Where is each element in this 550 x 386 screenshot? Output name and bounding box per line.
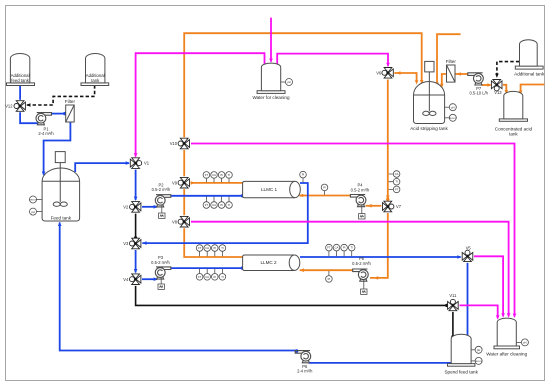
arrow into acid tank from filter — [440, 84, 444, 88]
svg-text:0.5-2 m³/h: 0.5-2 m³/h — [151, 260, 170, 265]
junction dot orange above V7 — [386, 198, 389, 201]
arrow into pump P4 — [367, 204, 371, 208]
svg-text:LLMC 1: LLMC 1 — [261, 187, 278, 192]
svg-text:V13: V13 — [494, 90, 502, 95]
svg-text:Filter: Filter — [65, 99, 76, 104]
arrow magenta into water tank — [269, 59, 273, 63]
svg-text:Feed tank: Feed tank — [51, 216, 72, 221]
valve V4 — [130, 274, 141, 285]
wire V12 to pump P1 — [20, 112, 38, 123]
wire external stub into concentrated acid tank — [521, 85, 545, 92]
svg-text:TI: TI — [221, 246, 224, 250]
wire filter F2 to acid stripping tank — [442, 74, 447, 85]
tank Acid stripping tank with agitator — [414, 61, 445, 123]
valve V13 — [491, 80, 502, 91]
tank Concentrated acid tank — [499, 91, 527, 121]
arrow blue into V3 from right — [142, 241, 146, 245]
instrument PI on LLMC1 blue outlet — [300, 171, 307, 182]
valve V6 — [382, 68, 393, 79]
svg-text:REDOX: REDOX — [449, 118, 457, 120]
svg-text:PI: PI — [220, 173, 223, 177]
wire orange riser V8 to LLMC 2 inlet — [184, 228, 242, 257]
arrow blue into pump P3 — [154, 277, 158, 281]
svg-text:CA: CA — [335, 246, 339, 250]
wire V11 to water-after-cleaning tank — [460, 305, 498, 318]
svg-text:FT: FT — [198, 275, 202, 279]
svg-text:tank: tank — [91, 78, 100, 83]
arrow into pump P5 — [374, 276, 378, 280]
svg-text:tank: tank — [509, 132, 518, 137]
svg-text:PI: PI — [302, 173, 305, 177]
junction dot black at spend tank top — [451, 335, 454, 338]
junction dot black at V11 left — [445, 304, 448, 307]
svg-text:0.5-2 m³/h: 0.5-2 m³/h — [351, 187, 370, 192]
valve V7 — [383, 201, 394, 212]
arrow into concentrated acid tank from stub — [519, 91, 523, 95]
svg-text:TI: TI — [228, 203, 231, 207]
junction dot black at V3 top — [134, 236, 137, 239]
VFD box of P3 — [158, 278, 164, 290]
svg-text:V10: V10 — [170, 141, 178, 146]
svg-text:V11: V11 — [449, 293, 457, 298]
vessel LLMC 1 — [243, 181, 301, 197]
arrow black into V12 — [26, 103, 30, 107]
tank Additional feed tank — [7, 54, 35, 86]
svg-text:REDOX: REDOX — [475, 361, 483, 363]
wire feed tank to V1 — [75, 163, 129, 172]
arrow blue into V5 — [457, 255, 461, 259]
svg-text:pH: pH — [451, 105, 454, 109]
svg-text:V8: V8 — [172, 219, 178, 224]
svg-text:CA: CA — [212, 173, 216, 177]
svg-text:PI: PI — [323, 185, 326, 189]
svg-text:CA: CA — [205, 246, 209, 250]
instrument REDOX on spend feed tank — [471, 357, 482, 364]
junction dot blue LLMC2 inlet — [241, 266, 244, 269]
wire feed tank drain to pump P6 — [60, 223, 297, 351]
svg-text:TI: TI — [395, 180, 398, 184]
vessel LLMC 2 — [243, 255, 300, 271]
arrow into LLMC 1 right — [299, 194, 303, 198]
valve V11 — [448, 299, 459, 310]
wire dashed additional tank to V13 — [497, 62, 519, 75]
wire dashed additional tank to V12 — [27, 86, 95, 105]
junction dot blue LLMC1 inlet — [241, 194, 244, 197]
wire V6 to V7 vertical — [387, 80, 389, 199]
wire pump P7 to valve V13 — [482, 84, 491, 86]
wire LLMC 2 outlet to V5 — [300, 256, 461, 258]
wire LLMC 1 outlet to pump P4 — [299, 195, 350, 197]
svg-text:CA: CA — [395, 172, 399, 176]
VFD box of P5 — [361, 280, 367, 295]
svg-text:V5: V5 — [466, 245, 472, 250]
wire orange riser V9-V8 — [183, 189, 185, 215]
wire V2 to pump P2 — [142, 206, 157, 208]
arrow blue into V2 — [134, 197, 138, 201]
wire pump P2 to LLMC 1 — [171, 195, 243, 197]
wire V7 to pump P4 inlet — [366, 205, 382, 207]
instrument REDOX on feed tank — [30, 196, 43, 203]
pump P6 — [295, 351, 311, 363]
wire external stub into water tank — [270, 18, 272, 62]
junction dot blue P6 inlet — [295, 349, 298, 352]
valve V9 — [178, 177, 189, 188]
wire V4 to V11 — [136, 286, 447, 306]
instrument PI on LLMC1 orange return — [321, 184, 328, 195]
svg-text:CA: CA — [212, 203, 216, 207]
svg-text:FT: FT — [395, 187, 399, 191]
tank Spend feed tank — [448, 334, 475, 366]
svg-text:PI: PI — [343, 246, 346, 250]
wire orange top header to acid stripping tank — [184, 33, 422, 137]
instrument cluster FT CA PI TI above LLMC2 inlet — [196, 245, 225, 257]
svg-text:V6: V6 — [376, 70, 382, 75]
wire filter F2 to pump P7 — [455, 73, 468, 75]
tank Additional tank (top left) — [81, 54, 109, 86]
wire V5 to spend feed tank — [467, 263, 469, 337]
instrument pH on water-for-cleaning tank — [281, 79, 293, 86]
svg-text:0.5-2 m³/h: 0.5-2 m³/h — [352, 261, 371, 266]
wire LLMC 1 outlet back to V3 — [142, 183, 307, 243]
instrument stems and circles — [30, 79, 529, 365]
svg-text:TI: TI — [228, 173, 231, 177]
wire external stub into acid stripping tank — [437, 34, 461, 83]
VFD box of P4 — [359, 205, 365, 219]
arrow into acid tank from stub — [435, 83, 439, 87]
valve V5 — [462, 250, 473, 261]
instrument pH on feed tank — [30, 208, 43, 215]
valve V12 — [14, 101, 25, 112]
valve V3 — [130, 238, 141, 249]
wire V9 to LLMC 1 inlet — [191, 182, 243, 184]
svg-text:LLMC 2: LLMC 2 — [260, 260, 277, 265]
svg-text:0.5-2 m³/h: 0.5-2 m³/h — [152, 187, 171, 192]
wire V4 to pump P3 — [142, 278, 157, 280]
pump P1 — [36, 113, 52, 125]
instrument cluster FT CA PI TI below LLMC1 inlet — [203, 197, 232, 209]
svg-text:V3: V3 — [123, 241, 129, 246]
instrument cluster FT CA PI TI above LLMC1 inlet — [203, 172, 232, 183]
wire pump P6 to spend feed tank — [309, 362, 452, 364]
wire pump P5 outlet to LLMC 2 — [300, 269, 353, 271]
instrument REDOX on acid stripping tank — [445, 114, 457, 121]
arrow blue into pump P2 — [154, 205, 158, 209]
arrow at V6 right — [396, 71, 400, 75]
wire orange riser V10-V9 — [183, 150, 185, 176]
arrow magenta into V6 — [386, 63, 390, 67]
valve V2 — [130, 202, 141, 213]
svg-text:FT: FT — [205, 173, 209, 177]
pump P3 — [155, 267, 171, 279]
svg-text:feed tank: feed tank — [11, 78, 30, 83]
svg-text:V4: V4 — [123, 277, 129, 282]
svg-text:TI: TI — [351, 246, 354, 250]
svg-text:TI: TI — [221, 275, 224, 279]
tank Feed tank with agitator — [42, 152, 80, 221]
arrow black dashed into V13 — [495, 74, 499, 78]
pump P4 — [350, 195, 366, 207]
instrument column CA TI FT at V7 riser — [389, 171, 400, 193]
svg-text:pH: pH — [31, 210, 34, 214]
wire V8 to water-after-cleaning tank — [191, 222, 509, 317]
instrument pH on water-after-cleaning tank — [516, 339, 528, 346]
arrow blue up into feed tank drain — [58, 222, 62, 226]
arrow blue into V4 — [134, 269, 138, 273]
svg-text:V7: V7 — [396, 204, 402, 209]
filter F1 — [66, 105, 75, 122]
pump P7 — [468, 73, 484, 85]
arrow magenta into V1 — [134, 153, 138, 157]
wire V11 to spend feed tank — [452, 312, 454, 337]
svg-text:PI: PI — [220, 203, 223, 207]
arrow blue into feed tank inlet — [42, 172, 46, 176]
wire additional feed tank to V12 — [19, 86, 21, 100]
instrument cluster FT CA PI TI below LLMC2 inlet — [196, 269, 225, 280]
svg-text:Water for cleaning: Water for cleaning — [252, 95, 290, 100]
pump P2 — [155, 195, 171, 207]
wire pump P1 to filter F1 — [52, 113, 65, 115]
svg-text:FT: FT — [205, 203, 209, 207]
valve V8 — [178, 216, 189, 227]
instrument pH on spend feed tank — [471, 346, 482, 353]
wire water tank to V6 — [277, 54, 388, 66]
svg-text:V9: V9 — [172, 180, 178, 185]
arrow into V13 — [487, 83, 491, 87]
arrow blue into V1 — [126, 161, 130, 165]
svg-text:pH: pH — [523, 341, 526, 345]
svg-text:0.5-10 L/h: 0.5-10 L/h — [469, 91, 488, 96]
svg-text:Filter: Filter — [446, 59, 457, 64]
wire filter F1 to feed tank — [44, 122, 71, 174]
wire V13 to concentrated acid tank — [503, 85, 506, 91]
svg-text:FT: FT — [327, 246, 331, 250]
junction dot blue at filter F1 — [63, 112, 66, 115]
instrument pH on acid stripping tank — [445, 104, 457, 111]
arrows magenta into water-after-cleaning tank — [496, 315, 500, 319]
svg-text:V12: V12 — [5, 104, 13, 109]
arrow into acid tank from V6 — [415, 80, 419, 84]
svg-text:PI: PI — [214, 246, 217, 250]
svg-text:CA: CA — [205, 275, 209, 279]
label cluster texts above LLMC1 — [198, 172, 399, 281]
arrow into LLMC 2 right — [300, 268, 304, 272]
wire V6 to acid stripping tank — [394, 73, 416, 81]
tank Additional tank (top right) — [515, 40, 543, 69]
svg-text:PI: PI — [214, 275, 217, 279]
svg-text:Water after cleaning: Water after cleaning — [486, 351, 527, 356]
arrow out of V9 to LLMC1 — [191, 181, 195, 185]
svg-text:Spend feed tank: Spend feed tank — [444, 369, 478, 374]
wire V2 to V3 — [135, 214, 137, 238]
tank Water for cleaning — [257, 63, 285, 93]
arrow into acid tank from top header — [420, 80, 424, 84]
svg-text:Additional tank: Additional tank — [514, 71, 545, 76]
VFD box of P2 — [159, 206, 165, 219]
instrument PI on LLMC2 orange return — [326, 271, 333, 282]
pump P5 — [353, 269, 369, 281]
filter F2 — [447, 65, 456, 82]
svg-text:V2: V2 — [123, 205, 129, 210]
valve V10 — [178, 138, 189, 149]
instrument cluster FT CA PI TI on LLMC2 outlet — [326, 244, 355, 256]
wire V5 to water-after-cleaning tank — [474, 256, 503, 316]
svg-text:PI: PI — [328, 277, 331, 281]
svg-text:2-4 m³/h: 2-4 m³/h — [38, 131, 54, 136]
arrow into concentrated acid tank from V13 — [505, 90, 509, 94]
arrow into filter F2 — [457, 72, 461, 76]
svg-text:FT: FT — [198, 246, 202, 250]
svg-text:pH: pH — [477, 348, 480, 352]
wire V10 to water-after-cleaning tank — [191, 144, 515, 317]
svg-text:REDOX: REDOX — [29, 200, 37, 202]
wire pump P3 to LLMC 2 — [171, 267, 243, 269]
svg-text:pH: pH — [287, 80, 290, 84]
valve V1 — [130, 158, 141, 169]
wire V1 to V2 — [135, 170, 137, 200]
svg-text:V1: V1 — [144, 161, 150, 166]
wire V3 to V4 — [135, 250, 137, 272]
svg-text:2-4 m³/h: 2-4 m³/h — [297, 369, 313, 374]
tank Water after cleaning — [494, 318, 520, 349]
svg-text:Acid stripping tank: Acid stripping tank — [410, 126, 448, 131]
arrow into V7 top — [386, 196, 390, 200]
wire water tank to V1 — [136, 53, 265, 156]
wire V7 bottom to pump P5 inlet — [370, 213, 388, 278]
